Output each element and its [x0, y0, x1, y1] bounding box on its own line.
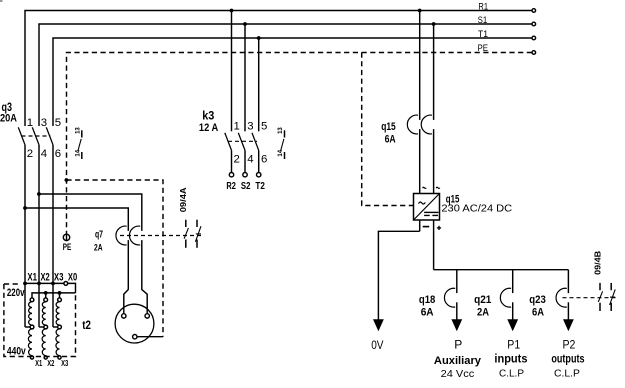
svg-text:09/4B: 09/4B [593, 251, 602, 275]
svg-text:5: 5 [261, 120, 267, 132]
svg-text:X1: X1 [35, 359, 43, 368]
svg-text:1: 1 [234, 120, 240, 132]
svg-text:6: 6 [55, 148, 61, 160]
svg-text:R2: R2 [226, 180, 236, 192]
svg-text:09/4A: 09/4A [179, 187, 188, 212]
svg-text:X0: X0 [68, 271, 77, 283]
svg-text:13: 13 [74, 127, 81, 134]
svg-text:S2: S2 [241, 180, 251, 192]
svg-text:k3: k3 [202, 109, 214, 123]
svg-text:6A: 6A [421, 307, 434, 319]
svg-text:14: 14 [277, 150, 284, 157]
svg-text:5: 5 [55, 117, 61, 129]
svg-text:220v: 220v [7, 287, 25, 299]
svg-text:2A: 2A [477, 307, 489, 319]
svg-text:440v: 440v [7, 346, 27, 358]
svg-text:0V: 0V [371, 338, 383, 352]
svg-text:S1: S1 [478, 14, 488, 25]
svg-text:4: 4 [247, 154, 253, 166]
svg-text:T1: T1 [478, 28, 488, 39]
svg-text:12 A: 12 A [199, 122, 218, 134]
svg-text:230 AC/24 DC: 230 AC/24 DC [441, 204, 512, 215]
svg-text:2A: 2A [94, 243, 103, 254]
svg-text:q23: q23 [529, 294, 546, 306]
svg-text:2: 2 [27, 148, 33, 160]
svg-text:20A: 20A [0, 112, 17, 124]
svg-text:2: 2 [234, 154, 240, 166]
svg-text:X3: X3 [54, 271, 64, 283]
svg-text:inputs: inputs [494, 353, 527, 366]
svg-text:C.L.P: C.L.P [554, 369, 580, 380]
svg-text:PE: PE [478, 42, 489, 53]
svg-text:q18: q18 [419, 294, 436, 306]
svg-text:P2: P2 [563, 338, 576, 352]
svg-text:t2: t2 [82, 320, 91, 332]
svg-text:6: 6 [261, 154, 267, 166]
svg-text:24 Vcc: 24 Vcc [441, 369, 475, 380]
svg-text:X2: X2 [41, 271, 50, 283]
svg-text:C.L.P: C.L.P [499, 369, 524, 380]
svg-text:6A: 6A [532, 307, 544, 319]
svg-text:PE: PE [63, 242, 72, 252]
svg-text:q21: q21 [474, 294, 491, 306]
svg-text:outputs: outputs [551, 353, 584, 366]
svg-text:T2: T2 [255, 180, 265, 192]
svg-text:X2: X2 [47, 359, 55, 368]
svg-text:4: 4 [41, 148, 47, 160]
svg-text:1: 1 [27, 117, 33, 129]
svg-text:6A: 6A [385, 134, 396, 146]
svg-text:P: P [454, 337, 462, 351]
svg-text:P1: P1 [507, 338, 520, 352]
svg-text:Auxiliary: Auxiliary [434, 355, 482, 367]
svg-text:X3: X3 [61, 359, 69, 368]
svg-text:13: 13 [277, 127, 284, 134]
svg-text:14: 14 [74, 150, 81, 157]
svg-text:q7: q7 [95, 229, 103, 240]
svg-text:X1: X1 [27, 271, 37, 283]
svg-text:3: 3 [41, 117, 47, 129]
svg-text:q15: q15 [381, 121, 396, 133]
svg-text:3: 3 [247, 120, 253, 132]
svg-text:R1: R1 [478, 0, 488, 11]
